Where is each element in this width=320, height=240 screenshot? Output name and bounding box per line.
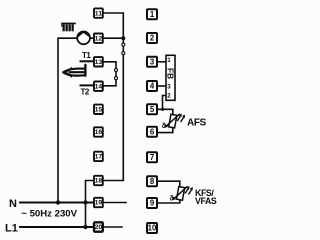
svg-text:7: 7 [150,153,154,162]
svg-text:18: 18 [95,178,103,185]
svg-text:1: 1 [167,57,171,64]
svg-text:AFS: AFS [187,117,207,128]
svg-text:~ 50Hz 230V: ~ 50Hz 230V [21,209,77,220]
svg-text:2: 2 [150,34,155,43]
svg-text:14: 14 [95,83,103,90]
svg-text:FB: FB [166,68,176,79]
svg-text:19: 19 [95,200,103,207]
svg-text:2: 2 [167,92,171,99]
svg-text:VFAS: VFAS [195,196,217,206]
svg-text:13: 13 [95,59,103,66]
svg-text:4: 4 [150,82,155,91]
svg-text:20: 20 [95,224,103,231]
svg-text:6: 6 [150,128,155,137]
svg-text:9: 9 [150,199,155,208]
svg-text:T2: T2 [81,88,90,97]
svg-text:10: 10 [148,224,157,233]
svg-text:8: 8 [150,177,155,186]
svg-text:3: 3 [150,58,155,67]
svg-text:12: 12 [95,35,103,42]
svg-text:17: 17 [95,154,103,161]
svg-text:5: 5 [150,105,155,114]
svg-text:16: 16 [95,129,103,136]
svg-text:11: 11 [95,10,102,17]
svg-text:1: 1 [150,10,155,19]
svg-text:L1: L1 [5,222,18,234]
svg-text:T1: T1 [82,51,91,60]
svg-text:N: N [9,198,17,210]
svg-text:15: 15 [95,107,103,114]
svg-text:3: 3 [167,83,171,90]
